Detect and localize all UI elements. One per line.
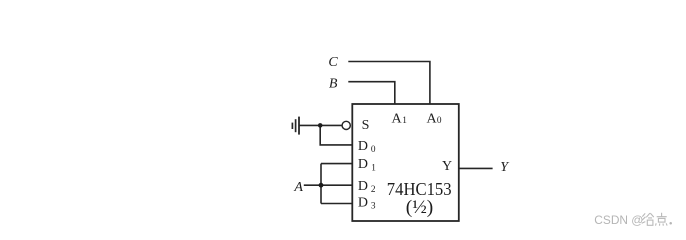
wire branch to pin D1 xyxy=(321,163,352,165)
svg-text:S: S xyxy=(362,118,370,133)
svg-text:Y: Y xyxy=(442,159,452,174)
svg-text:A: A xyxy=(392,112,403,127)
svg-text:Y: Y xyxy=(500,160,510,175)
junction node on A wire xyxy=(319,183,324,188)
svg-text:1: 1 xyxy=(402,116,407,126)
wire output Y xyxy=(459,167,493,169)
wire branch to pin D3 xyxy=(321,203,352,205)
svg-text:A: A xyxy=(427,112,438,127)
watermark CSDN @给点. xyxy=(594,213,672,227)
svg-text:CSDN @: CSDN @ xyxy=(594,213,643,227)
svg-text:74HC153: 74HC153 xyxy=(387,179,452,199)
wire C horizontal then down to pin A0 xyxy=(348,62,430,105)
svg-text:B: B xyxy=(329,76,338,91)
svg-text:D: D xyxy=(358,157,368,172)
svg-text:D: D xyxy=(358,139,368,154)
svg-text:D: D xyxy=(358,179,368,194)
svg-text:(½): (½) xyxy=(406,197,433,218)
wire A to pin D2 xyxy=(304,184,353,186)
svg-text:0: 0 xyxy=(371,145,376,155)
wire B horizontal then down to pin A1 xyxy=(348,82,395,104)
svg-text:A: A xyxy=(293,180,303,195)
svg-text:1: 1 xyxy=(371,163,376,173)
inverter bubble on S input xyxy=(342,121,350,129)
svg-text:D: D xyxy=(358,196,368,211)
svg-text:3: 3 xyxy=(371,202,376,212)
wire node down to pin D0 xyxy=(320,125,352,144)
ground symbol xyxy=(292,117,299,135)
wire branch vertical D1-D3 xyxy=(320,164,322,204)
svg-text:2: 2 xyxy=(371,185,376,195)
junction node on S wire xyxy=(318,123,323,128)
IC U1 74HC153 box xyxy=(352,104,459,221)
svg-text:0: 0 xyxy=(437,116,442,126)
wire ground to S bubble xyxy=(299,124,342,126)
svg-text:C: C xyxy=(328,55,338,70)
